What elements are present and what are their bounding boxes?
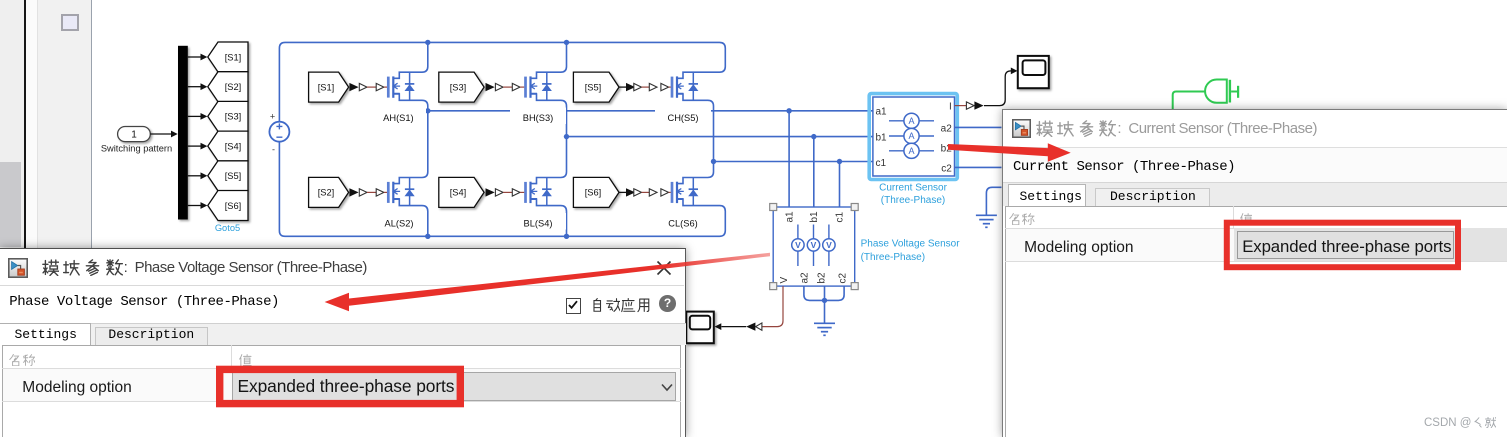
- title (inactive gray): [1036, 120, 1317, 137]
- svg-text:[S1]: [S1]: [225, 52, 242, 62]
- separator: [1003, 147, 1507, 148]
- svg-text:b2: b2: [941, 144, 953, 155]
- junction dot phase a / sensor tap: [786, 108, 791, 113]
- wire: bottom bus: [285, 199, 725, 236]
- from tag [S5]: [573, 72, 619, 102]
- ground (voltage sensor reference): [814, 323, 835, 335]
- svg-text:A: A: [908, 146, 914, 156]
- wire: phase a line: [428, 110, 873, 112]
- auto-apply checkbox: [566, 298, 581, 313]
- wire demux to [S3]: [188, 115, 201, 117]
- selection corner handles: [770, 204, 859, 290]
- svg-text:b1: b1: [876, 132, 888, 143]
- gate driver chain S5: [619, 83, 671, 91]
- svg-text:+: +: [270, 112, 275, 122]
- svg-text:I: I: [949, 101, 952, 112]
- wire: V output (dark red) to scope2: [762, 286, 783, 327]
- junction dot DC+ bus / leg B: [564, 40, 569, 45]
- node phase c: [711, 159, 716, 164]
- header row texts: [9, 353, 35, 366]
- close X: [656, 260, 672, 276]
- goto tag [S5]: [208, 161, 248, 191]
- wire: leg B drain: [531, 42, 567, 78]
- rotated port labels bottom: [779, 272, 849, 284]
- svg-text:c1: c1: [835, 212, 846, 223]
- wire demux to [S6]: [188, 205, 201, 207]
- tab strip: [1003, 182, 1507, 205]
- node phase a: [425, 108, 430, 113]
- from tag [S4]: [439, 177, 484, 207]
- svg-text:AH(S1): AH(S1): [383, 113, 413, 123]
- gate driver chain S3: [486, 83, 525, 91]
- port labels: [876, 107, 888, 169]
- header texts: [1009, 213, 1035, 226]
- DC voltage source: [269, 112, 289, 155]
- svg-text:a1: a1: [876, 107, 888, 118]
- svg-text:[S4]: [S4]: [450, 188, 467, 198]
- tab strip: [0, 323, 686, 345]
- svg-text:[S3]: [S3]: [450, 82, 467, 92]
- goto tag [S2]: [208, 72, 248, 102]
- MOSFET label backgrounds: [371, 108, 711, 230]
- node: input port 1 (Switching pattern): [101, 127, 172, 154]
- transistor CL(S6): [672, 178, 698, 206]
- wire: BL source to bottom bus: [531, 199, 567, 236]
- svg-text:c2: c2: [838, 273, 849, 284]
- wire demux to [S2]: [188, 86, 201, 88]
- svg-text:(Three-Phase): (Three-Phase): [881, 195, 945, 206]
- svg-text:CH(S5): CH(S5): [668, 113, 699, 123]
- svg-text:Phase Voltage Sensor: Phase Voltage Sensor: [861, 239, 961, 250]
- data row: [1006, 229, 1507, 261]
- wire demux to [S5]: [188, 175, 201, 177]
- watermark: [1424, 416, 1496, 429]
- red highlight rect (right dialog value): [1227, 223, 1458, 268]
- svg-text:1: 1: [131, 130, 137, 141]
- wire: leg A phase junction down to AL drain: [393, 111, 428, 184]
- value combobox: [232, 372, 676, 401]
- gate driver chain S1: [349, 83, 387, 91]
- svg-text:a2: a2: [941, 124, 953, 135]
- transistor AH(S1): [388, 72, 414, 100]
- prompt row: [1013, 159, 1235, 175]
- svg-text:[S3]: [S3]: [225, 112, 242, 122]
- junction dot phase c / sensor tap: [837, 159, 842, 164]
- scope Scope2 (mirrored): [686, 312, 714, 344]
- goto tag [S1]: [208, 42, 248, 72]
- red highlight rect (bottom dialog value): [220, 369, 461, 403]
- svg-text:c1: c1: [876, 158, 887, 169]
- voltmeter stubs: [798, 225, 829, 267]
- table panel: [2, 345, 681, 437]
- svg-text:Switching pattern: Switching pattern: [101, 144, 172, 154]
- ammeter circles: [904, 113, 919, 158]
- svg-text:CL(S6): CL(S6): [668, 218, 697, 228]
- data row: [3, 369, 680, 401]
- transistor AL(S2): [388, 178, 414, 206]
- wire voltage sensor a2/b2/c2 merge: [804, 286, 844, 322]
- Block Parameters dialog: Phase Voltage Sensor (bottom-left): [0, 248, 686, 437]
- rotated port labels top: [785, 211, 846, 223]
- from tag [S3]: [439, 72, 484, 102]
- wire demux to [S4]: [188, 145, 201, 147]
- svg-text:a2: a2: [800, 272, 811, 284]
- svg-text:[S1]: [S1]: [318, 82, 335, 92]
- gate driver chain S6: [619, 188, 671, 196]
- prompt row: [9, 294, 279, 310]
- wire current sensor outputs a2 b2 c2: [955, 127, 1002, 167]
- from tag [S2]: [309, 177, 349, 207]
- svg-text:[S5]: [S5]: [225, 171, 242, 181]
- wire: DC source vertical + top/bottom left corners: [279, 42, 285, 236]
- svg-text:[S6]: [S6]: [585, 188, 602, 198]
- red annotation arrow to bottom dialog: [325, 253, 770, 311]
- from tag [S6]: [573, 177, 619, 207]
- svg-text:[S5]: [S5]: [585, 82, 602, 92]
- svg-text:[S2]: [S2]: [225, 82, 242, 92]
- transistor BL(S4): [526, 178, 552, 206]
- scope Scope1: [1018, 56, 1049, 88]
- help button: [659, 295, 676, 312]
- svg-text:A: A: [908, 131, 914, 141]
- wire: voltage sensor taps: [788, 111, 790, 207]
- header bottom / divider: [1005, 228, 1507, 229]
- wire: leg C source to phase c and CL drain: [677, 94, 713, 184]
- svg-text:b2: b2: [817, 272, 828, 284]
- wire: leg A source to phase a junction: [393, 94, 428, 111]
- svg-text:[S6]: [S6]: [225, 201, 242, 211]
- value cell: [1234, 228, 1507, 261]
- svg-text:V: V: [779, 277, 790, 284]
- junction dot DC- bus / leg B: [564, 234, 569, 239]
- title: [42, 259, 367, 276]
- ammeter lines: [889, 121, 934, 151]
- from tag [S1]: [309, 72, 349, 102]
- Block Parameters dialog: Current Sensor (right): [1002, 109, 1507, 437]
- goto tag [S6]: [208, 191, 248, 221]
- gate driver chain S2: [349, 188, 387, 196]
- header bottom border / col divider: [2, 368, 681, 369]
- block body: [873, 97, 955, 176]
- svg-text:BL(S4): BL(S4): [524, 218, 553, 228]
- separator under title: [0, 285, 684, 286]
- dialog icon: [8, 258, 28, 278]
- svg-text:Current Sensor: Current Sensor: [879, 182, 947, 193]
- svg-text:V: V: [795, 240, 801, 250]
- wire: phase b line: [567, 136, 873, 138]
- svg-text:BH(S3): BH(S3): [523, 113, 553, 123]
- svg-text:A: A: [908, 116, 914, 126]
- dialog icon: [1012, 119, 1031, 138]
- svg-text:Goto5: Goto5: [215, 223, 240, 233]
- wire: leg B source to phase b and BL drain: [531, 94, 567, 184]
- wire: top bus: [285, 42, 725, 78]
- svg-text:b1: b1: [809, 211, 820, 223]
- red annotation arrow to right dialog: [948, 143, 1071, 162]
- MOSFET labels: [383, 113, 698, 229]
- transistor CH(S5): [672, 72, 698, 100]
- junction dot DC+ bus / leg A: [425, 40, 430, 45]
- svg-text:V: V: [811, 240, 817, 250]
- wire demux to [S1]: [188, 56, 201, 58]
- table panel: [1005, 206, 1507, 437]
- goto tag [S4]: [208, 131, 248, 161]
- svg-text:c2: c2: [941, 164, 952, 175]
- selection highlight: [869, 94, 957, 180]
- svg-text:(Three-Phase): (Three-Phase): [861, 252, 925, 263]
- junction dot phase b / sensor tap: [811, 134, 816, 139]
- junction dot DC- bus / leg A: [425, 234, 430, 239]
- svg-text:-: -: [272, 145, 275, 155]
- svg-text:AL(S2): AL(S2): [385, 218, 414, 228]
- svg-text:a1: a1: [785, 211, 796, 223]
- wire: AL source to bottom bus: [393, 199, 428, 236]
- ground (machine side, partly behind dialog): [986, 187, 1001, 214]
- gate driver chain S4: [486, 188, 525, 196]
- wire I output (rate transition) to Scope1: [955, 105, 967, 107]
- svg-text:[S4]: [S4]: [225, 141, 242, 151]
- wire input to demux: [150, 133, 171, 135]
- wire: phase c line: [714, 161, 873, 163]
- transistor BH(S3): [526, 72, 552, 100]
- node phase b: [564, 134, 569, 139]
- svg-text:V: V: [826, 240, 832, 250]
- machine connector icon (green): [1173, 80, 1238, 110]
- goto tag [S3]: [208, 101, 248, 131]
- demux bar (Demux): [178, 46, 188, 220]
- wire: leg A drain: [393, 42, 428, 78]
- svg-text:[S2]: [S2]: [318, 188, 335, 198]
